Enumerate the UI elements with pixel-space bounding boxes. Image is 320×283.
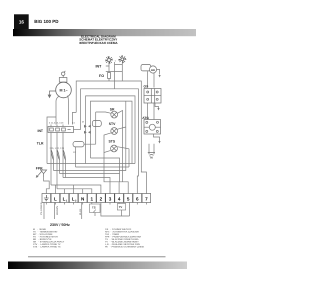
terminal bottom stubs (46, 203, 146, 205)
wire contact row tails down (51, 133, 63, 189)
wire mains pe down (43, 203, 45, 220)
wire rail 2 (76, 166, 130, 168)
BR arrow (159, 75, 161, 78)
svg-text:4: 4 (118, 196, 121, 201)
wire TS bottom (94, 213, 96, 217)
svg-text:5: 5 (127, 196, 130, 201)
wire lamp bundle vertical (126, 101, 129, 167)
wire OS out to arrow (155, 103, 159, 108)
legend right column (105, 228, 145, 249)
TLR contacts (51, 150, 66, 161)
wire stub L2 (73, 185, 75, 194)
FO fuse box (108, 73, 111, 79)
svg-text:ЭЛЕКТРИЧЕСКАЯ СХЕМА: ЭЛЕКТРИЧЕСКАЯ СХЕМА (79, 41, 118, 45)
wire rail 4 (60, 174, 120, 182)
svg-text:STS - LAMPKA TRYBU TS: STS - LAMPKA TRYBU TS (33, 245, 61, 248)
wire rail 1 (47, 163, 135, 165)
legend left column (33, 228, 65, 249)
svg-text:TK: TK (150, 157, 154, 160)
earth symbol in first terminal (44, 195, 49, 201)
wire rail 2b (128, 166, 130, 168)
svg-text:6: 6 (136, 196, 139, 201)
svg-text:7: 7 (145, 196, 148, 201)
svg-text:SR: SR (110, 107, 115, 111)
svg-text:4 11, 4 12, 4 13: 4 11, 4 12, 4 13 (49, 122, 64, 125)
wire coil feed (84, 112, 96, 144)
svg-text:FO: FO (99, 74, 104, 78)
TLR coil rounded box (73, 142, 84, 147)
blower BR scroll (141, 65, 157, 74)
wire lamp SR left (96, 112, 111, 113)
svg-text:STV: STV (109, 122, 116, 126)
wire INT branch vertical (106, 62, 123, 89)
thermal contact TK (148, 153, 155, 156)
wire nest elbow 2 (81, 89, 139, 194)
svg-text:s: s (115, 59, 117, 62)
TV box (117, 204, 125, 211)
wire lamp STS left (104, 150, 119, 181)
wire BR pill bottom lead (147, 71, 149, 87)
wire sun1 lead down to FO fuse (108, 64, 110, 82)
wire rail 5 (63, 178, 110, 194)
wire pins into INT box (51, 125, 63, 127)
svg-text:BROWN: BROWN (56, 206, 59, 215)
svg-text:2: 2 (75, 199, 77, 202)
wire lamp SR right (117, 111, 122, 182)
svg-text:PE - PRZEWOD OCHRONNY UZIEM: PE - PRZEWOD OCHRONNY UZIEM. (105, 245, 145, 248)
wire rail 6 t4 t5 (119, 182, 128, 194)
motor pull-switch circle (62, 71, 66, 78)
wire lamp STS right (117, 147, 129, 149)
wire rail 7 (51, 185, 101, 194)
wire sun2 lead down (115, 63, 123, 82)
wire TV bottom (121, 210, 123, 216)
svg-text:1: 1 (66, 199, 68, 202)
svg-text:INT: INT (96, 65, 103, 69)
svg-text:TS: TS (92, 206, 96, 210)
svg-text:230V / 50Hz: 230V / 50Hz (50, 223, 70, 227)
wire mains N down (81, 203, 83, 220)
svg-text:16: 16 (19, 19, 25, 24)
FPR damper symbol (37, 170, 46, 177)
wire stub L1 (64, 189, 66, 194)
switch row INT box (48, 127, 74, 133)
wire nest elbow 3 (86, 96, 135, 164)
sun lamp 2 (118, 55, 126, 63)
wire motor right lead (67, 96, 70, 125)
svg-text:INT: INT (38, 129, 44, 133)
wire stub L (54, 185, 56, 194)
wire ATG out (154, 134, 160, 141)
wire coil tail down (75, 147, 77, 167)
motor capacitor box (59, 78, 67, 83)
footer gradient bar (8, 262, 187, 270)
svg-text:BIG 100 PD: BIG 100 PD (34, 19, 59, 24)
wire mains L down (54, 203, 56, 220)
small rounded box mid (92, 121, 101, 127)
svg-text:12: 12 (73, 151, 76, 154)
sun lamp 1 (105, 56, 113, 64)
wire nest elbow 4 (91, 101, 133, 173)
motor M1 circle (56, 82, 72, 98)
wire rail 3 (54, 127, 126, 171)
wire lamp STV right (118, 127, 126, 129)
svg-text:M: M (82, 121, 84, 124)
wire FPR tail staircase (44, 177, 50, 194)
wire contact row right tail (74, 129, 81, 131)
svg-text:STS: STS (109, 139, 116, 143)
svg-text:TV: TV (119, 205, 123, 209)
wire elbow1 hook to pin14 (73, 112, 77, 124)
wire OS columns through (148, 103, 155, 120)
wire lamp STV left (104, 133, 111, 153)
ATG arrow (158, 141, 160, 144)
TS box (90, 204, 101, 213)
wire nest elbow 1 outer (76, 81, 146, 194)
legend separator rule (28, 256, 166, 257)
svg-text:7 21, 1 22, 7 23: 7 21, 1 22, 7 23 (50, 147, 65, 150)
wire left bus corner (47, 117, 56, 164)
wire stub N (82, 189, 84, 194)
svg-text:OS: OS (144, 84, 150, 88)
ground arrow left of motor (48, 91, 56, 98)
wire TS stub t1 (91, 203, 93, 205)
wire BR right lead (157, 70, 160, 75)
header gradient bar (13, 29, 196, 36)
svg-text:3: 3 (109, 196, 112, 201)
OS arrow (157, 108, 159, 111)
svg-text:M 1~: M 1~ (59, 88, 67, 92)
svg-text:L: L (54, 196, 57, 201)
svg-text:YE-GREEN: YE-GREEN (40, 202, 43, 215)
wire BR bottom lead (153, 73, 155, 88)
svg-text:BLUE: BLUE (79, 208, 82, 215)
terminal strip (42, 194, 151, 203)
wire rail 8 (57, 189, 92, 194)
svg-text:BR: BR (151, 69, 155, 72)
wire TS stub t2 (101, 203, 130, 217)
svg-text:N: N (81, 196, 85, 201)
svg-text:TLR: TLR (37, 142, 44, 146)
OS relay block (144, 89, 161, 104)
wire TLR moving tails (54, 160, 66, 178)
page number box (14, 14, 29, 29)
terminal labels (54, 196, 148, 201)
rotated wire code labels (40, 202, 82, 215)
svg-text:14: 14 (72, 122, 75, 125)
svg-text:1: 1 (91, 196, 94, 201)
wire motor left lead (56, 96, 59, 125)
wire TV stub t4 (118, 203, 120, 204)
wire TV stub t5 (129, 203, 131, 217)
ATG relay block (144, 120, 161, 135)
svg-text:2: 2 (100, 196, 103, 201)
wire TK stubs (149, 144, 154, 153)
connector pair 1 (84, 125, 91, 134)
